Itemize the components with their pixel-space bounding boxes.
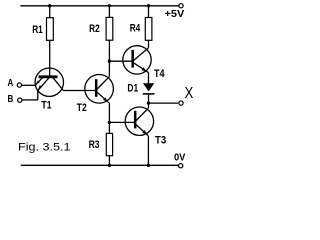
svg-text:0V: 0V [174, 151, 185, 163]
svg-text:X: X [185, 85, 194, 102]
svg-text:T2: T2 [77, 102, 87, 114]
svg-text:Fig. 3.5.1: Fig. 3.5.1 [18, 141, 71, 153]
svg-text:R4: R4 [130, 23, 141, 35]
svg-text:A: A [8, 77, 14, 89]
svg-text:T1: T1 [41, 100, 51, 112]
svg-text:+5V: +5V [165, 9, 185, 20]
svg-text:R1: R1 [32, 24, 43, 36]
svg-text:B: B [8, 93, 14, 105]
svg-text:T3: T3 [155, 135, 166, 147]
svg-text:R3: R3 [89, 139, 100, 151]
svg-text:R2: R2 [89, 23, 100, 35]
svg-text:D1: D1 [127, 82, 138, 94]
svg-text:T4: T4 [154, 68, 165, 80]
